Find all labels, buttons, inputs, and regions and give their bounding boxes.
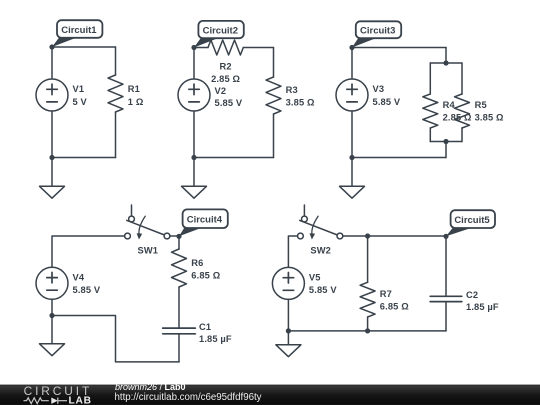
svg-text:1 Ω: 1 Ω <box>128 97 144 107</box>
voltage source V2 <box>178 79 210 111</box>
wire R1 top lead <box>115 47 117 75</box>
wire R3 top lead <box>273 48 275 78</box>
node junction c3 bottom <box>349 155 354 160</box>
wire parallel top bar <box>430 62 462 64</box>
svg-text:brownm26 / Lab0: brownm26 / Lab0 <box>115 382 186 392</box>
wire V5 bottom lead <box>287 299 289 344</box>
label R3 name/value <box>286 85 315 108</box>
wire SW2 right to corner <box>343 235 446 237</box>
svg-text:3.85 Ω: 3.85 Ω <box>286 98 315 108</box>
voltage source V1 <box>36 79 68 111</box>
svg-text:V5: V5 <box>309 272 321 282</box>
svg-text:Circuit5: Circuit5 <box>454 215 490 226</box>
wire R1 bottom lead <box>115 112 117 158</box>
svg-text:6.85 Ω: 6.85 Ω <box>191 271 220 281</box>
node junction c2 bottom <box>191 155 196 160</box>
node junction R7 top <box>365 233 370 238</box>
wire bottom c3 <box>352 157 446 159</box>
wire R7 top lead <box>367 236 369 282</box>
svg-text:R1: R1 <box>128 84 140 94</box>
svg-text:R7: R7 <box>380 289 392 299</box>
wire R5 bottom lead <box>461 128 463 142</box>
wire V4 bottom to lower run <box>52 316 179 362</box>
wire R3 bottom lead <box>273 114 275 158</box>
svg-text:6.85 Ω: 6.85 Ω <box>380 302 409 312</box>
svg-text:V4: V4 <box>73 272 85 282</box>
wire top-right c2 <box>243 47 273 49</box>
label bubble Circuit1 <box>52 20 102 47</box>
wire to parallel top <box>445 48 447 64</box>
voltage source V3 <box>336 79 368 111</box>
label bubble Circuit5 <box>446 210 495 236</box>
resistor R6 <box>172 249 187 287</box>
node junction V5 bottom <box>286 328 291 333</box>
voltage source V4 <box>36 267 68 299</box>
wire SW1 right to node <box>170 235 179 237</box>
resistor R5 <box>455 94 470 128</box>
resistor R1 <box>108 75 123 112</box>
capacitor C2 <box>430 296 462 301</box>
svg-text:SW1: SW1 <box>138 246 159 256</box>
wire C1 bottom lead <box>178 334 180 362</box>
resistor R7 <box>360 282 375 317</box>
label V3 name/value <box>373 84 401 107</box>
svg-text:V2: V2 <box>215 86 227 96</box>
wire V3 top lead <box>351 48 353 80</box>
label R1 name/value <box>128 84 144 107</box>
ground c1 <box>40 186 65 198</box>
wire R6 to C1 <box>178 287 180 328</box>
resistor R4 <box>423 94 438 128</box>
wire top-left c2 <box>194 47 208 49</box>
wire SW1 left to V4 <box>52 236 125 267</box>
wire V2 bottom lead <box>193 111 195 186</box>
label R7 name/value <box>380 289 409 311</box>
svg-text:V1: V1 <box>73 84 85 94</box>
svg-text:Circuit3: Circuit3 <box>360 25 395 36</box>
label R6 name/value <box>191 258 220 281</box>
svg-text:5.85 V: 5.85 V <box>373 97 401 107</box>
switch SW1 <box>125 205 170 240</box>
svg-text:C1: C1 <box>199 322 211 332</box>
node junction c1 bottom <box>49 155 54 160</box>
svg-text:5.85 V: 5.85 V <box>73 285 101 295</box>
label C2 name/value <box>466 290 499 312</box>
ground c2 <box>182 186 207 198</box>
resistor R3 <box>266 77 281 114</box>
svg-text:LAB: LAB <box>69 395 92 405</box>
wire V4 bottom lead <box>51 299 53 343</box>
node junction R7 bottom <box>365 328 370 333</box>
svg-text:2.85 Ω: 2.85 Ω <box>211 74 240 84</box>
node junction parallel bottom <box>443 139 448 144</box>
ground c5 <box>276 345 301 357</box>
svg-text:R5: R5 <box>475 100 487 110</box>
wire top c3 <box>352 47 446 49</box>
capacitor C1 <box>163 328 196 334</box>
node junction parallel top <box>443 60 448 65</box>
node c4 (bubble anchor) <box>176 234 181 239</box>
CircuitLab logo wordmark <box>24 384 93 398</box>
wire top c1 <box>52 46 116 48</box>
wire R7 bottom lead <box>367 317 369 331</box>
label R2 name/value <box>211 62 240 85</box>
logo resistor-diode symbol <box>24 398 68 404</box>
svg-text:SW2: SW2 <box>310 246 331 256</box>
label V5 name/value <box>309 272 337 295</box>
footer bar <box>0 385 540 405</box>
label V4 name/value <box>73 272 101 295</box>
ground c3 <box>340 186 365 198</box>
svg-text:Circuit2: Circuit2 <box>203 25 238 36</box>
svg-text:V3: V3 <box>373 84 385 94</box>
svg-text:C2: C2 <box>466 290 478 300</box>
wire parallel to bottom <box>445 142 447 158</box>
svg-text:1.85 µF: 1.85 µF <box>199 334 232 344</box>
node c1 top (bubble anchor) <box>49 44 54 49</box>
wire R6 top lead <box>178 236 180 249</box>
label bubble Circuit4 <box>179 209 228 236</box>
wire V2 top lead <box>193 48 195 80</box>
wire bottom c1 <box>52 157 116 159</box>
wire R4 top lead <box>429 63 431 94</box>
node c3 top (bubble anchor) <box>349 45 354 50</box>
wire parallel bottom bar <box>430 141 462 143</box>
wire C2 bottom lead <box>445 302 447 331</box>
wire SW2 left to V5 <box>288 236 297 267</box>
svg-text:R4: R4 <box>443 100 456 110</box>
svg-text:R3: R3 <box>286 85 298 95</box>
label C1 name/value <box>199 322 232 344</box>
wire C2 top lead <box>445 236 447 296</box>
wire V1 bottom lead <box>51 111 53 186</box>
label R4 name/value <box>443 100 472 122</box>
label V2 name/value <box>215 86 243 108</box>
label R5 name/value <box>475 100 504 122</box>
svg-text:Circuit4: Circuit4 <box>187 215 223 226</box>
node junction V4 bottom <box>49 313 54 318</box>
svg-text:http://circuitlab.com/c6e95dfd: http://circuitlab.com/c6e95dfdf96ty <box>115 392 262 403</box>
svg-text:5.85 V: 5.85 V <box>215 98 243 108</box>
wire bottom c2 <box>194 157 274 159</box>
svg-text:3.85 Ω: 3.85 Ω <box>475 113 504 123</box>
svg-text:5.85 V: 5.85 V <box>309 285 337 295</box>
switch SW2 <box>298 205 343 240</box>
ground c4 <box>40 344 65 356</box>
label bubble Circuit3 <box>352 21 401 47</box>
node c5 (bubble anchor) <box>443 234 448 239</box>
wire bottom c5 <box>288 330 446 332</box>
svg-text:R6: R6 <box>191 258 203 268</box>
wire R5 top lead <box>461 63 463 94</box>
svg-text:R2: R2 <box>220 62 232 72</box>
wire V1 top lead <box>51 47 53 79</box>
wire R4 bottom lead <box>429 128 431 142</box>
svg-text:Circuit1: Circuit1 <box>61 25 97 36</box>
svg-text:5 V: 5 V <box>73 97 88 107</box>
svg-text:2.85 Ω: 2.85 Ω <box>443 113 472 123</box>
label V1 name/value <box>73 84 88 107</box>
voltage source V5 <box>272 267 304 299</box>
wire V3 bottom lead <box>351 111 353 186</box>
node c2 top (bubble anchor) <box>191 45 196 50</box>
label bubble Circuit2 <box>194 21 244 48</box>
svg-text:1.85 µF: 1.85 µF <box>466 302 499 312</box>
resistor R2 <box>208 40 243 55</box>
